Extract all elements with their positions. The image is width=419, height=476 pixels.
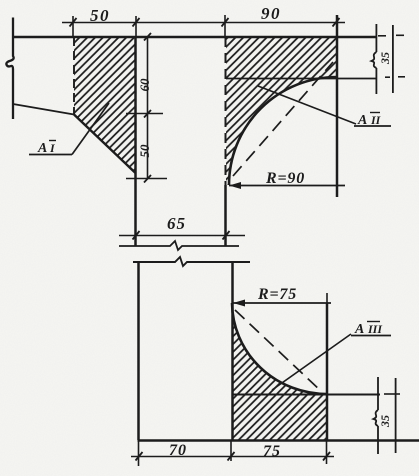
svg-text:50: 50	[137, 144, 152, 158]
svg-text:65: 65	[167, 214, 186, 233]
svg-text:50: 50	[90, 6, 110, 25]
svg-text:R=90: R=90	[265, 170, 305, 187]
svg-text:75: 75	[263, 443, 281, 460]
svg-text:60: 60	[137, 78, 152, 92]
svg-text:35: 35	[378, 52, 392, 65]
svg-text:70: 70	[169, 442, 187, 459]
svg-text:III: III	[367, 322, 383, 336]
svg-text:90: 90	[261, 4, 281, 23]
svg-text:A: A	[354, 322, 364, 337]
svg-text:A: A	[37, 141, 47, 156]
svg-text:35: 35	[378, 415, 392, 428]
svg-text:A: A	[357, 113, 367, 128]
svg-text:R=75: R=75	[257, 286, 297, 303]
svg-text:II: II	[370, 113, 382, 127]
